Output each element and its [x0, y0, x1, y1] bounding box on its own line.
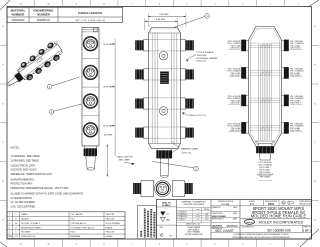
svg-text:CHECKED BY: CHECKED BY: [212, 213, 224, 215]
svg-text:1) MATERIAL: SEE TABLE: 1) MATERIAL: SEE TABLE: [11, 155, 41, 158]
svg-text:(8 PLC'S): (8 PLC'S): [182, 152, 192, 154]
svg-text:7/8-16UN: 7/8-16UN: [197, 55, 207, 57]
svg-text:SD-130060-006: SD-130060-006: [267, 229, 291, 233]
svg-text:CABLE LENGTH: CABLE LENGTH: [78, 11, 103, 15]
svg-text:GOLD PLATED: GOLD PLATED: [106, 222, 121, 225]
svg-text:1300600022: 1300600022: [11, 19, 25, 22]
svg-text:PVC: PVC: [71, 218, 76, 220]
svg-text:MOLDED HOME RUN CABLE: MOLDED HOME RUN CABLE: [251, 214, 307, 219]
svg-text:WITHIN DIMENSIONS: WITHIN DIMENSIONS: [185, 234, 204, 236]
svg-text:THIRD ANGLE: THIRD ANGLE: [299, 200, 312, 203]
svg-text:CABLE LENGTH: CABLE LENGTH: [117, 156, 133, 159]
svg-text:1 PLACE ±: 1 PLACE ±: [177, 217, 186, 220]
svg-text:PROTECTION IP67: PROTECTION IP67: [11, 183, 33, 186]
svg-text:SEE CHART: SEE CHART: [119, 158, 132, 161]
svg-text:YELLOW: YELLOW: [106, 232, 115, 234]
svg-text:MATERIAL: MATERIAL: [71, 235, 82, 238]
svg-text:CABLE: CABLE: [21, 213, 28, 216]
svg-text:SOCKET CONTACT: SOCKET CONTACT: [21, 222, 41, 225]
svg-text:2) FINISHES: SEE TABLE: 2) FINISHES: SEE TABLE: [11, 160, 40, 163]
svg-text:MOLEX INCORPORATED: MOLEX INCORPORATED: [259, 220, 304, 224]
svg-text:UL: UL RECOGNIZED: UL: UL RECOGNIZED: [11, 201, 36, 204]
svg-text:JACKET: JACKET: [21, 217, 30, 220]
svg-text:ANGULAR ± 1/2°: ANGULAR ± 1/2°: [186, 223, 201, 226]
svg-text:409P863-03: 409P863-03: [37, 19, 51, 22]
svg-text:BLACK: BLACK: [106, 226, 113, 229]
svg-text:2010/01/29: 2010/01/29: [227, 225, 239, 227]
svg-text:ITEM: ITEM: [7, 236, 12, 238]
svg-text:NUMBER: NUMBER: [12, 13, 26, 17]
svg-text:DIMENSION STYLE: DIMENSION STYLE: [218, 201, 234, 203]
svg-text:YELLOW: YELLOW: [106, 218, 115, 220]
svg-text:BWOODMAN: BWOODMAN: [212, 215, 226, 218]
svg-text:(c): (c): [166, 214, 169, 216]
svg-text:YELLOW: YELLOW: [106, 214, 115, 216]
svg-text:2 POLE FEMALE: 2 POLE FEMALE: [197, 51, 215, 54]
svg-text:NOTES:: NOTES:: [11, 146, 20, 149]
svg-text:AMPERAGE: 7AMPS PER MTG UNIT: AMPERAGE: 7AMPS PER MTG UNIT: [11, 173, 53, 176]
svg-text:SIZE: SIZE: [160, 227, 164, 229]
svg-text:RECEPTACLE SHELL: RECEPTACLE SHELL: [21, 226, 43, 229]
svg-text:CSA: CSA CERTIFIED: CSA: CSA CERTIFIED: [11, 205, 36, 208]
svg-text:100" +1.75" -0 [3,5M +44,5 -0]: 100" +1.75" -0 [3,5M +44,5 -0]: [75, 20, 105, 22]
svg-text:(8 PLC'S): (8 PLC'S): [197, 61, 207, 63]
svg-text:5) LABEL IS MARKED WITH P/N, D: 5) LABEL IS MARKED WITH P/N, DATE CODE, …: [11, 192, 84, 195]
svg-text:(UNLESS SPECIFIED): (UNLESS SPECIFIED): [183, 204, 204, 206]
svg-text:DOCUMENT NO: DOCUMENT NO: [242, 227, 255, 229]
svg-text:4.29000 (2 PLC'S): 4.29000 (2 PLC'S): [188, 115, 206, 117]
svg-text:(AB): (AB): [166, 218, 170, 221]
svg-text:molex: molex: [246, 222, 253, 224]
svg-text:PVC JACKET: PVC JACKET: [71, 213, 85, 216]
svg-text:VOLTAGE: 600V AC/DC: VOLTAGE: 600V AC/DC: [11, 169, 38, 172]
svg-text:JMURPHY: JMURPHY: [212, 225, 223, 227]
svg-text:8.88 REF: 8.88 REF: [156, 19, 166, 21]
svg-text:8.88 REF: 8.88 REF: [159, 14, 169, 16]
svg-text:HOUSING: HOUSING: [21, 232, 31, 234]
svg-text:Ø.6 REF: Ø.6 REF: [104, 134, 113, 136]
svg-text:DECIMAL: DECIMAL: [221, 203, 229, 206]
svg-text:SEE CHART: SEE CHART: [260, 176, 271, 179]
svg-text:COPPER ALLOY: COPPER ALLOY: [71, 222, 88, 225]
svg-text:6) CERTIFICATION:: 6) CERTIFICATION:: [11, 197, 33, 200]
svg-text:NUMBER: NUMBER: [37, 13, 51, 17]
svg-text:DESCRIPTION: DESCRIPTION: [21, 236, 36, 238]
svg-text:EXTERNAL THREAD: EXTERNAL THREAD: [197, 57, 218, 60]
svg-text:1 OF 1: 1 OF 1: [303, 228, 312, 232]
svg-text:SHEET NO: SHEET NO: [303, 227, 311, 229]
svg-text:QTY: QTY: [14, 236, 19, 238]
svg-text:3) ELECTRICAL DATA: 3) ELECTRICAL DATA: [11, 164, 36, 167]
svg-text:WARNING LABEL: WARNING LABEL: [181, 148, 200, 151]
svg-text:QUALITY: QUALITY: [162, 201, 172, 204]
svg-text:4) ENVIRONMENTAL:: 4) ENVIRONMENTAL:: [11, 178, 36, 181]
svg-text:FINISH: FINISH: [106, 236, 113, 238]
svg-text:OPERATING TEMPERATURE RANGE: -: OPERATING TEMPERATURE RANGE: -25C TO 90C: [11, 187, 69, 190]
svg-text:PVC: PVC: [71, 232, 76, 234]
svg-text:SEE CHART: SEE CHART: [215, 229, 234, 233]
svg-text:2 CONTACT ZINC ALLOY: 2 CONTACT ZINC ALLOY: [71, 226, 96, 229]
